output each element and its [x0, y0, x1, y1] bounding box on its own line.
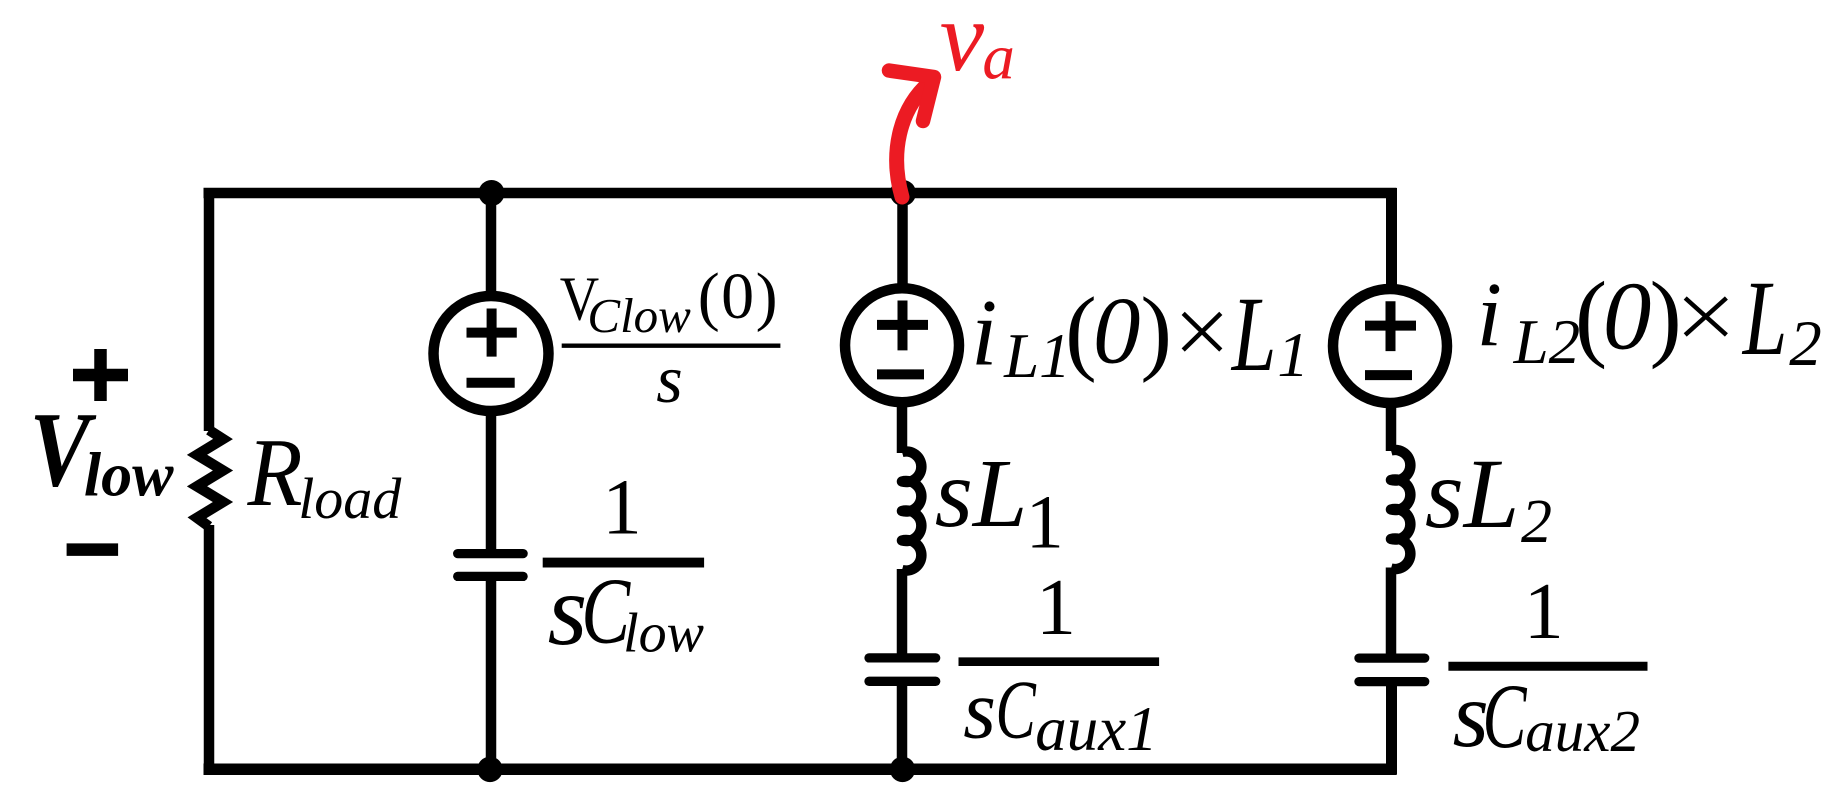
- svg-text:aux2: aux2: [1525, 698, 1640, 764]
- node junction top branch3 (node a): [890, 180, 916, 206]
- wire top bus: [204, 188, 1397, 199]
- node junction bottom branch3: [890, 757, 915, 782]
- svg-text:low: low: [84, 442, 174, 510]
- Vlow minus sign: [67, 543, 119, 556]
- wire branch4 top segment: [1386, 188, 1397, 290]
- source iL2 minus sign: [1365, 370, 1412, 380]
- source iL2 plus sign: [1365, 321, 1416, 331]
- wire left branch upper segment: [204, 188, 215, 431]
- svg-text:0: 0: [1093, 278, 1141, 384]
- svg-text:i: i: [1477, 264, 1503, 366]
- svg-text:L2: L2: [1513, 307, 1581, 377]
- inductor sL1: [902, 451, 921, 570]
- capacitor Clow: [458, 554, 523, 577]
- svg-text:C: C: [996, 663, 1037, 756]
- svg-text:): ): [1650, 262, 1682, 369]
- capacitor Caux1: [869, 658, 936, 681]
- svg-text:2: 2: [1521, 488, 1552, 556]
- source iL1 circle: [845, 288, 959, 402]
- wire bottom bus: [204, 764, 1397, 776]
- svg-text:s: s: [963, 663, 996, 756]
- wire branch2 middle segment: [486, 410, 497, 553]
- wire branch4 lower middle segment: [1386, 568, 1397, 655]
- svg-text:low: low: [623, 603, 704, 665]
- Vlow plus sign: [73, 369, 128, 382]
- label 1/sClow fraction bar: [543, 558, 704, 568]
- source VClow minus sign: [467, 378, 515, 388]
- svg-text:sL: sL: [935, 440, 1028, 548]
- svg-text:1: 1: [1524, 568, 1564, 656]
- svg-text:aux1: aux1: [1035, 694, 1157, 764]
- svg-text:L1: L1: [1003, 321, 1071, 391]
- svg-text:1: 1: [1277, 320, 1309, 390]
- svg-text:(: (: [1065, 277, 1097, 383]
- capacitor Caux2: [1359, 658, 1425, 682]
- wire branch3 bottom segment: [897, 682, 908, 769]
- source iL1 minus sign: [877, 369, 924, 379]
- label 1/sCaux1 fraction bar: [959, 657, 1160, 666]
- wire branch4 bottom segment: [1386, 682, 1397, 775]
- label VClow fraction bar: [562, 344, 781, 348]
- source VClow circle: [434, 296, 549, 411]
- wire branch2 bottom segment: [486, 577, 497, 769]
- svg-text:s: s: [656, 341, 682, 417]
- source iL1 plus sign: [877, 320, 928, 330]
- svg-text:L: L: [1230, 276, 1276, 394]
- svg-text:1: 1: [1036, 564, 1076, 652]
- svg-text:1: 1: [1026, 480, 1064, 564]
- source VClow plus sign: [467, 328, 517, 338]
- svg-text:a: a: [982, 21, 1015, 93]
- svg-text:L: L: [1741, 260, 1787, 378]
- label 1/sCaux2 fraction bar: [1448, 662, 1647, 671]
- svg-text:1: 1: [602, 465, 642, 552]
- wire branch3 upper middle segment: [897, 402, 908, 453]
- inductor sL2: [1391, 450, 1410, 569]
- node junction bottom branch2: [477, 757, 502, 782]
- arrow va shaft (red): [897, 82, 930, 197]
- svg-text:i: i: [971, 280, 997, 386]
- svg-text:): ): [1140, 277, 1172, 383]
- wire branch4 upper middle segment: [1386, 403, 1397, 451]
- wire branch2 top segment: [486, 193, 497, 297]
- svg-text:sL: sL: [1425, 438, 1520, 549]
- svg-text:0: 0: [1603, 262, 1652, 369]
- wire branch3 lower middle segment: [897, 569, 908, 654]
- resistor Rload: [197, 430, 223, 527]
- svg-text:C: C: [1482, 667, 1527, 768]
- wire branch3 top segment: [897, 193, 908, 289]
- node junction top branch2: [479, 180, 505, 206]
- svg-text:(0): (0): [698, 260, 779, 333]
- source iL2 circle: [1333, 289, 1447, 403]
- wire left branch lower segment: [204, 525, 215, 775]
- svg-text:load: load: [298, 466, 402, 531]
- svg-text:Clow: Clow: [587, 288, 691, 343]
- svg-text:R: R: [247, 420, 303, 527]
- arrow va head (red): [889, 71, 934, 122]
- svg-text:2: 2: [1789, 308, 1822, 380]
- svg-text:v: v: [940, 0, 985, 92]
